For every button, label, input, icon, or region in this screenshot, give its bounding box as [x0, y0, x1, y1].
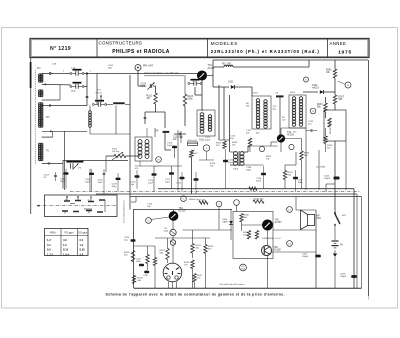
transistor TS4 — [169, 212, 178, 221]
switch wire — [104, 200, 106, 212]
diode X103 — [229, 221, 232, 224]
wire — [161, 165, 182, 167]
wire — [42, 99, 60, 101]
svg-text:5P: 5P — [156, 131, 159, 133]
svg-text:P(W): P(W) — [50, 231, 56, 234]
wire — [334, 257, 336, 288]
wire — [334, 226, 336, 240]
switch S2 — [335, 214, 340, 224]
wire — [139, 161, 141, 166]
IF transformer S102 coil a — [256, 99, 259, 103]
oscillator padder coil — [89, 111, 92, 114]
resistor R122 — [153, 258, 156, 266]
test point 7b — [310, 108, 316, 114]
svg-text:R5. CHG: R5. CHG — [222, 64, 232, 66]
test point 9 — [203, 145, 209, 151]
wire — [154, 128, 156, 137]
wire — [280, 142, 282, 152]
wire B+ top rail — [213, 59, 368, 61]
svg-text:R206: R206 — [326, 70, 332, 72]
resistor R101 — [154, 93, 157, 104]
capacitor C206 — [351, 275, 357, 278]
svg-text:8,20: 8,20 — [80, 248, 86, 252]
wire — [167, 238, 169, 249]
test point G3 — [234, 200, 240, 206]
resistor R121 — [146, 255, 149, 264]
svg-text:ANNEE: ANNEE — [330, 41, 347, 46]
svg-text:N° 1219: N° 1219 — [50, 46, 71, 52]
svg-text:1975: 1975 — [338, 49, 352, 55]
svg-text:100µF: 100µF — [302, 256, 309, 258]
IF transformer S103 coil b — [299, 97, 302, 101]
svg-text:1,0: 1,0 — [63, 243, 67, 247]
svg-text:50µF: 50µF — [228, 162, 234, 164]
resistor R119 — [249, 187, 257, 190]
wire — [267, 230, 269, 246]
resistor R124 — [191, 244, 194, 254]
svg-text:PRI. ANT: PRI. ANT — [143, 65, 154, 68]
svg-text:PO: PO — [98, 90, 101, 92]
wire — [42, 105, 87, 107]
driver transformer S106 core — [237, 151, 239, 166]
wire — [89, 106, 91, 111]
tuning capacitor C102 — [73, 82, 82, 84]
wire — [230, 210, 232, 241]
wire — [308, 60, 310, 67]
capacitor C205 — [315, 255, 321, 258]
antenna coil L103 GO — [39, 143, 42, 145]
wire — [90, 133, 130, 135]
svg-text:AC188: AC188 — [274, 249, 282, 252]
diode X101 — [231, 85, 235, 89]
oscillator coil S101 primary — [200, 113, 204, 117]
table column divider 1 — [60, 229, 62, 256]
svg-text:AC126: AC126 — [179, 210, 187, 213]
wire — [280, 128, 282, 135]
wire — [42, 83, 71, 86]
capacitor C124 — [261, 173, 266, 175]
svg-text:10µF: 10µF — [167, 145, 173, 147]
resistor R113 — [248, 138, 251, 147]
DIN pin 4 — [178, 273, 181, 275]
wire — [284, 165, 286, 171]
svg-text:6,4: 6,4 — [80, 238, 84, 242]
svg-text:50 mV: 50 mV — [96, 92, 103, 94]
svg-text:S102: S102 — [253, 93, 259, 95]
svg-text:AF126: AF126 — [287, 134, 294, 137]
wire — [106, 155, 114, 157]
wire bus 3 — [130, 196, 362, 198]
thermistor R111 — [190, 150, 193, 158]
header divider 2 — [207, 39, 209, 58]
test point 6 — [304, 77, 309, 82]
wire — [154, 246, 156, 258]
resistor R104 — [324, 103, 327, 112]
capacitor C118 — [172, 146, 177, 148]
svg-text:M: M — [347, 85, 349, 87]
wire — [345, 141, 347, 190]
switch contact 2b — [99, 199, 105, 201]
capacitor C103b — [54, 174, 57, 176]
wire — [137, 71, 139, 87]
tuning gang box — [63, 161, 128, 189]
svg-text:16µF: 16µF — [85, 181, 91, 183]
svg-text:PO gam: PO gam — [65, 231, 74, 234]
wire — [361, 197, 363, 289]
wire — [51, 73, 70, 75]
resistor R128 — [240, 214, 243, 223]
svg-text:X101: X101 — [228, 82, 234, 84]
svg-text:TS4: TS4 — [179, 208, 184, 210]
svg-text:16µF: 16µF — [60, 181, 66, 183]
svg-text:0,1: 0,1 — [47, 243, 51, 247]
svg-text:G: G — [183, 199, 185, 201]
wire — [151, 217, 169, 220]
svg-text:G: G — [218, 204, 220, 206]
resistor R117 — [199, 201, 208, 204]
capacitor C110 — [178, 133, 180, 136]
svg-text:C106: C106 — [141, 84, 147, 86]
wire — [324, 91, 335, 93]
switch contact 2a — [88, 201, 94, 203]
capacitor pad C105b — [113, 102, 125, 104]
svg-text:Commutateur/Gammes: Commutateur/Gammes — [123, 199, 126, 223]
switch contact 3a — [62, 210, 68, 212]
wire — [135, 197, 137, 203]
DIN pin 1 — [166, 268, 169, 270]
jack upper — [170, 229, 176, 235]
wire — [271, 141, 278, 143]
wire — [42, 136, 53, 138]
capacitor C107 — [103, 172, 106, 174]
chassis dash-dot line — [70, 191, 360, 193]
transistor TS3 — [277, 135, 284, 142]
wire — [353, 189, 355, 289]
wire — [219, 139, 230, 141]
svg-text:X102: X102 — [312, 85, 318, 87]
capacitor C112 pad — [276, 95, 284, 97]
IF transformer S103 coil a — [292, 97, 295, 101]
svg-text:47µF: 47µF — [98, 182, 104, 184]
svg-text:PHILIPS et RADIOLA: PHILIPS et RADIOLA — [112, 49, 170, 55]
svg-text:17B8 SB5A + CL-P: 17B8 SB5A + CL-P — [262, 237, 281, 240]
capacitor C122 — [194, 178, 199, 180]
driver transformer S106 coil a — [234, 152, 238, 156]
wire — [285, 138, 302, 140]
resistor R105 — [328, 118, 331, 127]
test point M1 — [156, 157, 162, 163]
svg-text:R?? 10k: R?? 10k — [197, 200, 206, 202]
transistor TS6 — [262, 246, 272, 256]
resistor R112 — [223, 141, 226, 149]
output stage box — [233, 212, 273, 259]
capacitor C126 — [131, 239, 136, 241]
potentiometer P102 — [114, 154, 126, 157]
wire — [334, 141, 336, 214]
svg-text:1,9,4: 1,9,4 — [63, 252, 69, 256]
wire — [272, 251, 317, 253]
svg-text:1,2: 1,2 — [80, 243, 84, 247]
wire — [133, 245, 155, 247]
switch contact 4a — [86, 210, 92, 212]
wire — [249, 147, 251, 152]
test point 11 — [146, 218, 152, 224]
wire — [153, 85, 156, 87]
wire — [177, 130, 179, 191]
scan edge dark band — [30, 62, 32, 88]
capacitor C204 — [334, 177, 340, 180]
wire — [230, 164, 264, 166]
svg-text:50µF: 50µF — [256, 181, 262, 183]
wire — [133, 210, 135, 289]
svg-text:100µF: 100µF — [324, 178, 331, 180]
transistor TS1 — [197, 71, 206, 80]
wire — [218, 207, 220, 230]
capacitor C105 — [64, 172, 69, 174]
battery B1 — [332, 240, 339, 242]
svg-text:100Ω: 100Ω — [243, 235, 249, 237]
wire — [194, 87, 196, 95]
capacitor C120 — [223, 160, 228, 162]
resistor R126 — [191, 260, 194, 269]
wire — [207, 75, 213, 77]
resistor R115 — [324, 136, 327, 144]
svg-text:S106: S106 — [233, 169, 239, 171]
svg-text:Schéma de l'appareil avec le d: Schéma de l'appareil avec le détail du c… — [106, 292, 285, 296]
capacitor C106 — [89, 173, 94, 175]
svg-text:4,6: 4,6 — [63, 238, 67, 242]
wire underline — [144, 75, 184, 77]
wire — [168, 282, 170, 289]
wire — [147, 246, 149, 255]
RF choke L105 — [224, 65, 233, 67]
oscillator coil S101 box — [197, 110, 215, 136]
svg-text:C121: C121 — [176, 183, 182, 185]
svg-text:100n: 100n — [136, 261, 142, 263]
wire — [303, 91, 318, 93]
wire — [356, 194, 358, 288]
wire — [242, 224, 263, 226]
svg-text:HP: HP — [317, 216, 321, 218]
wire — [233, 66, 309, 68]
wire — [184, 75, 186, 94]
capacitor C121 — [180, 177, 185, 179]
svg-text:9V: 9V — [340, 244, 343, 247]
svg-text:100µ: 100µ — [112, 186, 118, 188]
svg-text:6,0: 6,0 — [47, 248, 51, 252]
capacitor C127 — [139, 264, 144, 266]
wire — [84, 86, 87, 88]
tuning capacitor C101 — [73, 69, 82, 71]
svg-text:PO: PO — [46, 116, 50, 119]
wire — [295, 152, 297, 165]
capacitor C110b — [135, 175, 140, 177]
capacitor C108 pad — [163, 131, 170, 133]
wire — [235, 86, 252, 88]
wire — [218, 85, 220, 140]
capacitor C109 — [116, 178, 121, 180]
svg-text:1µF: 1µF — [131, 184, 135, 186]
wire — [192, 230, 194, 244]
table header underline — [45, 235, 89, 237]
schematic group start — [31, 58, 369, 300]
IF transformer S104 coil a — [138, 140, 142, 144]
wire — [84, 73, 200, 75]
wire — [126, 155, 140, 157]
diode X102 — [320, 90, 324, 94]
node top rail — [50, 73, 52, 75]
wire — [201, 80, 203, 111]
wire — [133, 209, 232, 211]
test point 14 — [287, 207, 293, 213]
wire — [334, 104, 336, 110]
resistor R102 — [183, 94, 186, 106]
wire — [155, 237, 210, 239]
capacitor C119 — [180, 135, 183, 137]
resistor R123 — [166, 249, 169, 260]
svg-text:25Ω: 25Ω — [317, 218, 322, 220]
capacitor C117 — [169, 172, 174, 174]
capacitor C125 — [293, 177, 298, 179]
svg-text:8,10: 8,10 — [63, 248, 69, 252]
resistor R127 — [193, 274, 196, 283]
test point 12a — [259, 146, 264, 151]
wire — [334, 78, 336, 95]
resistor R125 — [204, 245, 207, 254]
IF transformer S102 coil b — [264, 100, 267, 103]
svg-text:100µF: 100µF — [340, 276, 347, 278]
svg-text:100k: 100k — [188, 99, 194, 101]
wire — [326, 183, 335, 185]
switch contact 1b — [75, 200, 81, 202]
svg-text:100µ: 100µ — [298, 182, 304, 184]
driver transformer S106 coil b — [240, 152, 244, 156]
DIN pin 2 — [176, 268, 179, 270]
table frame — [45, 229, 89, 256]
svg-text:10k 1/8W: 10k 1/8W — [316, 167, 326, 169]
wire right rail — [368, 60, 370, 296]
wire — [334, 60, 336, 69]
capacitor C123 — [310, 129, 312, 132]
wire — [236, 205, 238, 211]
wire — [172, 245, 174, 263]
test point 13 — [287, 241, 293, 247]
wire — [146, 128, 148, 137]
svg-text:AC187: AC187 — [275, 221, 283, 224]
wire — [296, 209, 316, 211]
IF transformer S102 frame — [252, 96, 271, 129]
wire — [273, 229, 316, 231]
battery terminal — [333, 254, 337, 257]
tuning gang section C1 — [66, 161, 83, 163]
svg-text:GO gam: GO gam — [78, 231, 87, 234]
svg-text:TS6: TS6 — [274, 247, 279, 249]
test point M3 — [345, 82, 351, 88]
svg-text:TS5: TS5 — [275, 220, 280, 222]
header table frame — [30, 39, 369, 58]
wire — [205, 238, 207, 245]
svg-text:PRISE CASQ.: PRISE CASQ. — [329, 120, 332, 134]
svg-text:50µF: 50µF — [205, 140, 211, 142]
wire — [212, 60, 214, 87]
svg-text:Ptot mW sbtt mW seulem.: Ptot mW sbtt mW seulem. — [220, 283, 246, 286]
svg-text:R110 1k0: R110 1k0 — [188, 140, 198, 142]
table column divider 2 — [77, 229, 79, 256]
wire — [230, 151, 236, 153]
svg-text:R101: R101 — [147, 96, 153, 98]
svg-text:OA90: OA90 — [222, 221, 228, 224]
wire — [191, 158, 193, 195]
wire — [164, 112, 166, 128]
wire — [301, 142, 303, 151]
wire — [42, 73, 49, 75]
DIN center pin — [172, 271, 174, 275]
svg-text:50µF: 50µF — [165, 182, 171, 184]
svg-text:R216 600: R216 600 — [254, 199, 264, 201]
wire bus 2 — [96, 193, 357, 195]
wire — [96, 74, 98, 105]
svg-text:S103: S103 — [290, 92, 296, 94]
wire — [315, 210, 317, 288]
wire — [206, 151, 208, 160]
resistor R118 — [253, 200, 264, 203]
switch wire — [70, 203, 75, 205]
wire — [267, 256, 269, 289]
test point G1 — [181, 196, 187, 202]
antenna coil L101b — [39, 90, 42, 92]
svg-text:2-20p: 2-20p — [141, 86, 148, 88]
wire — [42, 162, 63, 164]
svg-text:1,2,3: 1,2,3 — [47, 252, 53, 256]
wire — [242, 151, 248, 153]
svg-text:Consommation: env. 50 mA: Consommation: env. 50 mA — [144, 71, 178, 75]
svg-text:22k log: 22k log — [112, 151, 120, 153]
svg-text:R204: R204 — [317, 104, 323, 106]
tuning gang section C109 — [191, 79, 200, 81]
wire — [183, 229, 233, 231]
trimmer C106 — [149, 84, 151, 88]
switch contact 3b — [73, 211, 79, 213]
jack lower — [170, 240, 175, 245]
capacitor C103 — [86, 95, 89, 97]
antenna coil L101a — [39, 74, 42, 76]
switch contact 1a — [64, 200, 70, 202]
resistor R129 — [247, 231, 250, 240]
svg-text:CONSTRUCTEURS: CONSTRUCTEURS — [99, 41, 143, 46]
resistor R110 — [188, 142, 198, 145]
headphone box — [324, 110, 346, 141]
switch contact 4b — [97, 211, 103, 213]
scan edge line — [30, 58, 32, 215]
resistor R120 — [131, 251, 134, 262]
wire — [129, 75, 131, 210]
speaker HP — [308, 215, 315, 226]
wire — [64, 131, 66, 190]
resistor R106 — [333, 69, 336, 78]
svg-text:1µF: 1µF — [147, 206, 151, 208]
resistor R130 — [255, 231, 258, 240]
wire — [229, 95, 231, 152]
wire — [172, 220, 174, 229]
svg-text:22RL333/00 (Ph.) et RA333T/00: 22RL333/00 (Ph.) et RA333T/00 (Rad.) — [211, 49, 320, 54]
measure arrow — [100, 96, 102, 101]
wire — [318, 150, 320, 190]
IF transformer S104 frame — [135, 137, 152, 161]
svg-text:MODELES: MODELES — [211, 41, 238, 46]
switch detail box — [45, 195, 118, 217]
wire bus 1 — [158, 188, 354, 190]
svg-text:M: M — [158, 160, 160, 162]
